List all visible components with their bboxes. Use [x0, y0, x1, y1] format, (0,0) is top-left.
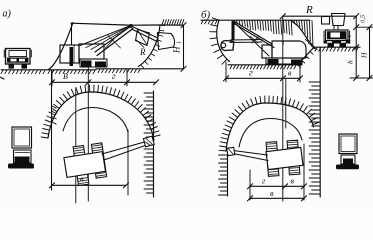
svg-text:б): б) [201, 9, 211, 21]
svg-text:В: В [63, 72, 68, 81]
truck (rear view, scheme b, on bench) [326, 30, 349, 41]
digging face hatch (scheme a) [141, 25, 165, 68]
inner arc (plan b) [239, 119, 302, 148]
svg-text:R: R [139, 47, 146, 57]
truck plan (left) [12, 127, 32, 148]
bucket unloading over truck [322, 17, 330, 25]
surface hatch small (scheme b) [201, 21, 217, 24]
pit bottom hatch (scheme b) [230, 65, 296, 69]
surface line (scheme a) [71, 23, 184, 25]
axis line (scheme b) [282, 16, 284, 201]
dimension H1 (scheme a) [183, 25, 185, 69]
surface hatch right (scheme a) [162, 20, 184, 25]
excavator E1 body (scheme a section) [71, 23, 73, 45]
svg-text:R: R [305, 4, 313, 16]
svg-text:в: в [80, 175, 84, 184]
ground hatch (scheme a) [1, 70, 45, 73]
excavator plan (scheme b) [266, 142, 279, 177]
left comb hatch (plan b) [219, 155, 228, 195]
inner arc (plan a) [63, 108, 128, 133]
dimension B and g (scheme a) [52, 81, 156, 83]
svg-text:Н: Н [172, 46, 182, 54]
lower slope hatch (scheme b) [298, 47, 318, 67]
bench hatch (scheme b) [315, 48, 358, 51]
svg-text:1: 1 [176, 41, 182, 44]
left pit edge comb (plan b) [227, 152, 229, 196]
edge mark [0, 77, 4, 79]
excavator plan (scheme a) [73, 146, 89, 186]
big arc hatch (plan a) [41, 85, 160, 138]
svg-text:в: в [288, 69, 292, 78]
deep hatch under surface (scheme b) [234, 21, 313, 45]
right dimension stack (0,5 Hv h H) [355, 16, 357, 78]
digging face curve (scheme a) [139, 25, 161, 66]
pit bottom hatch (scheme a) [98, 69, 140, 72]
big arc hatch (plan b) [219, 96, 319, 151]
right comb hatch (plan b) [309, 82, 320, 194]
dimension g and v (scheme b section) [226, 77, 300, 79]
svg-text:Н: Н [345, 38, 353, 45]
svg-text:г: г [112, 72, 116, 82]
svg-text:г: г [249, 69, 253, 79]
surface line (scheme b) [201, 19, 310, 21]
crest line (plan a) [75, 88, 77, 203]
pit bottom line (scheme b) [228, 64, 298, 66]
ground hatch mid (scheme a) [48, 70, 95, 73]
lower slope to bench (scheme b) [298, 47, 315, 65]
left slope (scheme a) [48, 23, 73, 70]
plan axis line (scheme a) [87, 68, 89, 201]
toe line right (plan a) [127, 130, 129, 195]
dimension v (plan a) [52, 184, 126, 186]
truck plan (right) [339, 134, 357, 154]
right comb hatch (plan a) [144, 93, 154, 193]
pit bottom line (scheme a) [96, 68, 183, 70]
svg-text:Н: Н [360, 52, 369, 59]
ground line (scheme a) [1, 69, 96, 71]
svg-text:в: в [291, 177, 295, 186]
svg-text:0,5: 0,5 [360, 14, 367, 23]
bench line (scheme b) [314, 46, 360, 48]
bench slope from surface (scheme b) [291, 21, 314, 48]
boom apex pulley (scheme a) [129, 24, 132, 27]
big swing arc (plan b) [226, 103, 314, 151]
svg-text:а): а) [3, 9, 12, 20]
excavator E1 arm and bucket [131, 26, 158, 38]
svg-text:в: в [270, 189, 274, 198]
big swing arc (plan a) [48, 92, 154, 140]
plan axis ext (scheme b) [285, 79, 287, 128]
bench slope ticks (scheme b) [306, 40, 315, 49]
left pit edge line (plan a) [51, 70, 53, 190]
left edge hatch (plan a) [52, 106, 56, 124]
left slope (scheme b) [217, 20, 230, 61]
svg-text:h: h [346, 60, 355, 64]
right pit edge comb (plan b) [319, 47, 321, 197]
dimension R (scheme b) [283, 15, 356, 17]
left slope hatch long (scheme b) [210, 18, 227, 64]
excavator E2 body (scheme b section) [262, 45, 272, 58]
excavator E2 arm and bucket [232, 21, 235, 40]
dimensions g v and v (plan b) [250, 185, 304, 187]
right pit edge comb (plan a) [153, 91, 155, 197]
truck (rear view, scheme a) [6, 49, 31, 65]
